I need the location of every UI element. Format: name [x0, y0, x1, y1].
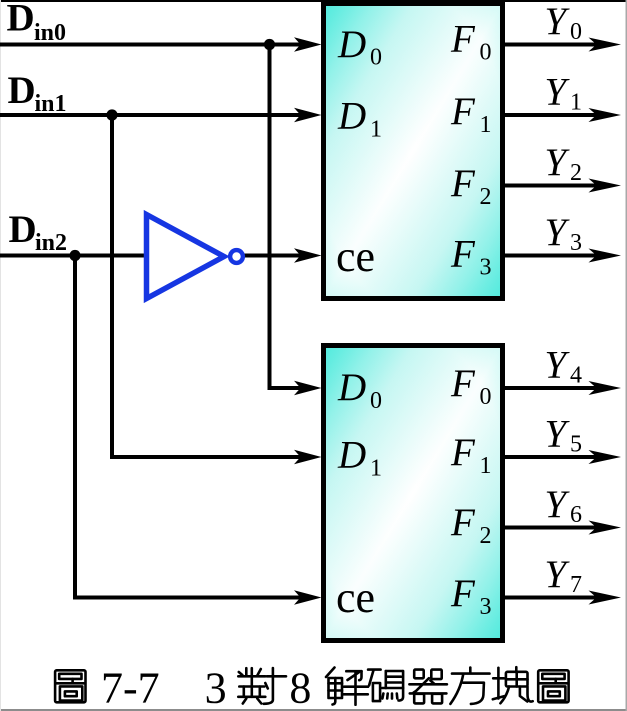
arrowhead into U2 D1	[294, 450, 322, 465]
decoder block U2	[324, 346, 503, 641]
wire inverter to ce	[244, 254, 302, 258]
svg-text:F: F	[450, 501, 476, 544]
caption char dui	[238, 668, 286, 704]
svg-text:4: 4	[570, 363, 582, 389]
wire Din2 to inverter	[0, 254, 146, 258]
svg-text:0: 0	[370, 45, 382, 71]
svg-text:0: 0	[480, 384, 492, 410]
output wire Y4	[505, 386, 602, 390]
caption CJK glyphs drawn as strokes	[55, 667, 569, 705]
wire vertical from Din1 junction	[110, 113, 114, 459]
svg-text:D: D	[337, 366, 366, 409]
arrowhead Y3	[589, 249, 622, 263]
svg-text:3: 3	[480, 594, 492, 620]
output wire Y3	[505, 254, 602, 258]
svg-text:F: F	[450, 162, 476, 205]
output wire Y1	[505, 113, 602, 117]
svg-text:1: 1	[370, 456, 382, 482]
svg-text:6: 6	[570, 502, 582, 528]
svg-text:1: 1	[570, 90, 582, 116]
svg-text:F: F	[450, 233, 476, 276]
svg-text:in2: in2	[35, 230, 67, 256]
svg-text:F: F	[450, 18, 476, 61]
svg-text:1: 1	[370, 116, 382, 142]
frame right	[626, 0, 627, 711]
svg-text:1: 1	[480, 453, 492, 479]
caption char ma	[368, 670, 403, 702]
junction node Din1	[106, 109, 117, 120]
svg-text:ce: ce	[336, 573, 375, 622]
frame bottom	[0, 709, 627, 711]
svg-text:2: 2	[570, 160, 582, 186]
junction node Din2	[69, 250, 80, 261]
svg-text:3: 3	[205, 663, 227, 711]
caption char jie	[326, 668, 368, 705]
svg-text:D: D	[8, 69, 36, 112]
wire vertical from Din2 junction	[73, 254, 77, 600]
arrowhead into U2 ce	[294, 590, 322, 605]
caption char qi	[409, 670, 447, 704]
svg-text:in1: in1	[35, 91, 67, 117]
output wire Y0	[505, 43, 602, 47]
junction node Din0	[264, 39, 275, 50]
caption char tu1 (first glyph of figure caption)	[55, 670, 85, 702]
caption char fang	[450, 668, 489, 704]
svg-text:D: D	[7, 0, 35, 40]
output wire Y7	[505, 596, 602, 600]
output wire Y5	[505, 455, 602, 459]
output wire Y6	[505, 526, 602, 530]
caption char kuai	[493, 667, 533, 703]
svg-text:0: 0	[480, 40, 492, 66]
frame left	[0, 0, 1, 711]
arrowhead Y2	[589, 179, 622, 193]
svg-text:2: 2	[480, 523, 492, 549]
svg-text:5: 5	[570, 432, 582, 458]
arrowhead Y4	[589, 381, 622, 395]
svg-text:D: D	[337, 434, 366, 477]
svg-text:in0: in0	[34, 20, 66, 46]
decoder block U1	[324, 4, 503, 299]
svg-text:F: F	[450, 431, 476, 474]
svg-text:3: 3	[480, 255, 492, 281]
svg-text:2: 2	[480, 184, 492, 210]
svg-text:D: D	[9, 208, 37, 251]
svg-text:0: 0	[370, 388, 382, 414]
svg-text:7: 7	[570, 572, 582, 598]
svg-text:F: F	[450, 572, 476, 615]
caption char tu2	[538, 670, 568, 702]
wire vertical from Din0 junction	[268, 43, 272, 391]
svg-text:8: 8	[289, 663, 311, 711]
wire into U2 D0	[268, 386, 303, 390]
svg-text:0: 0	[570, 19, 582, 45]
wire Din0 horizontal	[0, 43, 302, 47]
inverter bubble	[230, 250, 243, 263]
inverter U3	[147, 215, 225, 299]
arrowhead into U1 ce	[294, 248, 322, 263]
arrowhead Y6	[589, 521, 622, 535]
svg-text:D: D	[337, 23, 366, 66]
arrowhead into U1 D0	[294, 37, 322, 52]
arrowhead Y5	[589, 450, 622, 464]
svg-text:F: F	[450, 362, 476, 405]
output wire Y2	[505, 184, 602, 188]
wire into U2 D1	[110, 455, 302, 459]
arrowhead into U1 D1	[294, 108, 322, 123]
arrowhead Y7	[589, 591, 622, 605]
svg-text:1: 1	[480, 112, 492, 138]
wire Din1 horizontal	[0, 113, 302, 117]
svg-text:D: D	[337, 95, 366, 138]
arrowhead into U2 D0	[294, 381, 322, 396]
frame top	[0, 0, 627, 2]
wire into U2 ce	[73, 596, 302, 600]
arrowhead Y0	[589, 38, 622, 52]
svg-text:ce: ce	[336, 232, 375, 281]
svg-text:7-7: 7-7	[101, 663, 160, 711]
arrowhead Y1	[589, 108, 622, 122]
svg-text:F: F	[450, 90, 476, 133]
svg-text:3: 3	[570, 230, 582, 256]
